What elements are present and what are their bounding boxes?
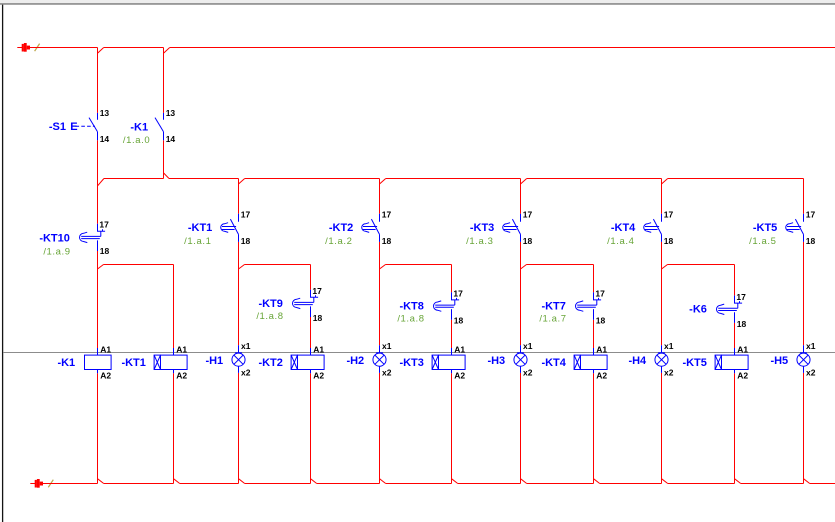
svg-text:A1: A1	[313, 344, 324, 354]
junction kink branch at col H	[521, 265, 527, 270]
wire col K	[734, 373, 736, 483]
contact -K6 top stub	[735, 296, 743, 304]
contact -KT1 delay symbol	[222, 226, 236, 228]
svg-text:x1: x1	[382, 341, 392, 351]
contact -K1 (seal-in)	[163, 113, 165, 120]
wire col A	[97, 373, 99, 483]
svg-text:x1: x1	[241, 341, 251, 351]
wire col D	[238, 179, 240, 214]
svg-text:-KT2: -KT2	[329, 222, 353, 234]
lamp -H4 body	[655, 353, 668, 366]
wire col L	[803, 179, 805, 214]
contact -KT9 blade	[294, 301, 314, 303]
svg-text:x2: x2	[664, 367, 674, 377]
coil -K1 top stub	[97, 348, 99, 355]
svg-text:18: 18	[382, 236, 392, 246]
contact -KT5 blade	[795, 219, 803, 234]
wire mid bus y178	[104, 178, 164, 180]
junction kink bottom bus at col H	[521, 479, 527, 484]
svg-text:18: 18	[806, 236, 816, 246]
svg-text:-KT4: -KT4	[611, 222, 636, 234]
svg-text:-K1: -K1	[130, 122, 148, 134]
svg-text:x1: x1	[523, 341, 533, 351]
contact -KT3 bottom stub	[520, 234, 522, 242]
svg-text:A2: A2	[313, 370, 324, 380]
svg-text:17: 17	[453, 289, 463, 299]
contact -KT3 delay symbol	[504, 226, 518, 228]
wire col J	[661, 373, 663, 484]
wire branch bus F-G	[386, 264, 452, 266]
junction kink bottom bus at col G	[452, 479, 458, 484]
contact -KT9 step	[313, 297, 315, 302]
contact -KT7 top stub	[594, 292, 602, 300]
svg-text:-KT1: -KT1	[121, 357, 145, 369]
svg-text:A2: A2	[596, 370, 607, 380]
svg-text:/1.a.5: /1.a.5	[749, 236, 776, 247]
svg-text:18: 18	[100, 246, 110, 256]
coil -KT4 body	[581, 355, 608, 369]
page top toolbar strip	[0, 0, 835, 3]
contact -KT8 blade	[435, 304, 455, 306]
coil -KT2 body	[298, 355, 325, 369]
wire col I	[593, 320, 595, 348]
pushbutton S1 contact	[97, 113, 99, 120]
junction kink top bus col B	[164, 48, 170, 54]
svg-text:x1: x1	[664, 341, 674, 351]
lamp -H3 top stub	[520, 345, 522, 353]
wire branch bus H-I	[527, 264, 594, 266]
contact -KT2 blade	[371, 219, 379, 234]
contact -K6 bottom stub	[734, 312, 736, 323]
contact -KT5 top stub	[803, 214, 805, 222]
junction kink mid bus at col A	[98, 179, 104, 186]
junction kink branch at col J	[662, 265, 668, 270]
wire col B	[163, 140, 165, 178]
contact -KT9 delay symbol	[293, 298, 301, 308]
wire col E	[310, 265, 312, 290]
svg-text:17: 17	[736, 292, 746, 302]
junction kink mid bus at col J	[662, 179, 668, 185]
wire col C	[173, 265, 175, 349]
contact -KT1 top stub	[238, 214, 240, 222]
wire col J	[661, 179, 663, 214]
svg-text:-S1: -S1	[49, 121, 66, 133]
contact -KT10 step	[100, 231, 102, 236]
coil -KT5 bottom stub	[734, 370, 736, 374]
coil -KT1 top stub	[173, 348, 175, 355]
contact -KT4 blade	[653, 219, 661, 234]
coil -K1 body	[85, 355, 112, 369]
wire col H	[520, 179, 522, 214]
contact -KT4 bottom stub	[661, 234, 663, 242]
contact -KT5 delay symbol	[787, 226, 801, 228]
svg-text:/1.a.2: /1.a.2	[325, 236, 352, 247]
coil -KT3 top stub	[451, 348, 453, 355]
junction kink branch at col A	[98, 265, 104, 270]
svg-text:A2: A2	[737, 370, 748, 380]
wire col H	[520, 242, 522, 345]
contact -KT3 blade	[512, 219, 520, 234]
svg-text:x2: x2	[382, 367, 392, 377]
svg-text:A2: A2	[176, 370, 187, 380]
contact -KT1 blade	[230, 219, 238, 234]
svg-text:-KT5: -KT5	[753, 222, 777, 234]
wire col K	[734, 323, 736, 348]
wire col I	[593, 373, 595, 483]
coil -KT3 body	[439, 355, 466, 369]
coil -KT3 timer marker box	[432, 355, 438, 369]
svg-text:-H5: -H5	[770, 355, 788, 367]
junction kink bottom bus at col K	[735, 479, 741, 484]
coil -KT3 bottom stub	[451, 370, 453, 374]
svg-text:-KT9: -KT9	[258, 298, 282, 310]
contact -KT8 top stub	[452, 292, 460, 300]
wire col D	[238, 373, 240, 484]
lamp -H5 bottom stub	[803, 366, 805, 373]
junction kink bottom bus at col J	[662, 479, 668, 484]
contact -KT7 blade	[577, 304, 597, 306]
svg-text:A1: A1	[596, 344, 607, 354]
svg-text:/1.a.9: /1.a.9	[43, 247, 70, 258]
coil -KT1 bottom stub	[173, 370, 175, 374]
contact -KT4 delay symbol	[645, 226, 659, 228]
contact -KT10 bottom stub	[97, 240, 99, 251]
contact -KT10 actuation tick	[102, 229, 104, 231]
wire bottom bus	[43, 483, 98, 485]
svg-text:/1.a.8: /1.a.8	[256, 311, 283, 322]
svg-text:18: 18	[454, 316, 464, 326]
svg-text:E: E	[70, 121, 77, 133]
coil -K1 bottom stub	[97, 370, 99, 374]
svg-text:-KT7: -KT7	[541, 301, 565, 313]
contact -KT2 bottom stub	[379, 234, 381, 242]
coil -KT4 bottom stub	[593, 370, 595, 374]
svg-text:13: 13	[166, 108, 176, 118]
svg-text:-KT10: -KT10	[39, 232, 70, 244]
wire col B	[163, 48, 165, 113]
svg-text:17: 17	[382, 210, 392, 220]
contact -KT7 step	[596, 300, 598, 305]
svg-text:-K6: -K6	[689, 304, 707, 316]
coil -KT4 top stub	[593, 348, 595, 355]
bottom bus phase tick	[48, 480, 53, 488]
contact -KT10 blade	[81, 235, 101, 237]
contact -KT8 bottom stub	[451, 309, 453, 320]
wire col G	[451, 320, 453, 348]
coil -KT2 top stub	[310, 348, 312, 355]
lamp -H3 bottom stub	[520, 366, 522, 373]
contact -KT1 bottom stub	[238, 234, 240, 242]
svg-text:-KT4: -KT4	[541, 357, 566, 369]
wire col E	[310, 317, 312, 348]
junction kink top bus col A	[98, 48, 104, 54]
lamp -H2 body	[373, 353, 386, 366]
junction kink mid bus at col B	[164, 173, 170, 179]
top bus source arrow	[17, 47, 22, 49]
wire col H	[520, 373, 522, 484]
wire col C	[173, 373, 175, 483]
junction kink bottom bus at col L	[804, 479, 810, 484]
svg-text:/1.a.8: /1.a.8	[397, 314, 424, 325]
wire col A	[97, 251, 99, 348]
contact -K6 step	[737, 303, 739, 308]
wire col F	[379, 373, 381, 484]
wire col F	[379, 179, 381, 214]
wire col A	[97, 140, 99, 224]
svg-text:/1.a.1: /1.a.1	[184, 236, 211, 247]
coil -KT2 bottom stub	[310, 370, 312, 374]
wire col I	[593, 265, 595, 293]
svg-text:A1: A1	[176, 344, 187, 354]
svg-text:-KT8: -KT8	[399, 301, 423, 313]
svg-text:A2: A2	[100, 370, 111, 380]
svg-text:-H3: -H3	[487, 355, 505, 367]
lamp -H5 body	[797, 353, 810, 366]
svg-text:17: 17	[99, 220, 109, 230]
junction kink mid bus at col F	[380, 179, 386, 185]
svg-text:17: 17	[806, 210, 816, 220]
svg-text:18: 18	[523, 236, 533, 246]
wire branch bus A-C	[104, 264, 174, 266]
wire col A	[97, 48, 99, 113]
coil -KT1 timer marker box	[154, 355, 160, 369]
svg-text:x2: x2	[523, 367, 533, 377]
coil -KT5 top stub	[734, 348, 736, 355]
contact -KT8 actuation tick	[456, 298, 458, 300]
junction kink mid bus at col H	[521, 179, 527, 185]
svg-text:-H1: -H1	[205, 355, 223, 367]
lamp -H1 top stub	[238, 345, 240, 353]
contact -KT10 delay symbol	[80, 232, 88, 242]
svg-text:A1: A1	[737, 344, 748, 354]
svg-text:A1: A1	[454, 344, 465, 354]
coil -KT2 timer marker box	[291, 355, 297, 369]
lamp -H1 body	[232, 353, 245, 366]
left window border	[2, 5, 4, 522]
lamp -H2 top stub	[379, 345, 381, 353]
contact -KT5 bottom stub	[803, 234, 805, 242]
contact -KT2 delay symbol	[363, 226, 377, 228]
top bus phase tick	[35, 44, 40, 52]
junction kink bottom bus at col I	[594, 479, 600, 484]
wire col J	[661, 242, 663, 345]
contact -KT7 bottom stub	[593, 309, 595, 320]
wire col F	[379, 242, 381, 345]
wire branch bus D-E	[245, 264, 311, 266]
wire col L	[803, 242, 805, 345]
svg-text:x2: x2	[806, 367, 816, 377]
junction kink branch at col F	[380, 265, 386, 270]
contact -KT10 top stub	[98, 224, 106, 232]
contact -KT9 bottom stub	[310, 306, 312, 317]
svg-text:-KT2: -KT2	[258, 357, 282, 369]
junction kink bottom bus at col C	[174, 479, 180, 484]
lamp -H4 bottom stub	[661, 366, 663, 373]
wire col G	[451, 373, 453, 483]
contact -K6 blade	[718, 307, 738, 309]
lamp -H3 body	[514, 353, 527, 366]
svg-text:A2: A2	[454, 370, 465, 380]
svg-text:13: 13	[100, 108, 110, 118]
coil -KT4 timer marker box	[574, 355, 580, 369]
coil -KT1 body	[161, 355, 188, 369]
junction kink mid bus at col D	[239, 179, 245, 185]
svg-text:18: 18	[596, 316, 606, 326]
junction kink bottom bus at col D	[239, 479, 245, 484]
wire branch bus J-K	[668, 264, 735, 266]
lamp -H1 bottom stub	[238, 366, 240, 373]
svg-text:-H2: -H2	[346, 355, 364, 367]
contact -KT2 top stub	[379, 214, 381, 222]
svg-text:18: 18	[737, 319, 747, 329]
junction kink bottom bus at col E	[311, 479, 317, 484]
contact -KT7 delay symbol	[575, 301, 583, 311]
contact -KT3 top stub	[520, 214, 522, 222]
contact -KT7 actuation tick	[598, 298, 600, 300]
svg-text:14: 14	[166, 134, 176, 144]
contact -KT9 top stub	[311, 290, 319, 298]
svg-text:-KT3: -KT3	[399, 357, 423, 369]
wire top bus	[30, 47, 98, 49]
gray separator line through coil row	[3, 352, 835, 354]
svg-text:17: 17	[523, 210, 533, 220]
coil -KT5 body	[722, 355, 749, 369]
lamp -H5 top stub	[803, 345, 805, 353]
contact -KT8 step	[454, 300, 456, 305]
svg-text:/1.a.0: /1.a.0	[123, 135, 150, 146]
svg-text:17: 17	[312, 286, 322, 296]
svg-text:-H4: -H4	[628, 355, 647, 367]
wire col K	[734, 265, 736, 296]
contact -K6 delay symbol	[716, 304, 724, 314]
bottom bus source arrow	[30, 483, 35, 485]
svg-text:14: 14	[100, 134, 110, 144]
svg-text:-KT5: -KT5	[682, 357, 706, 369]
contact -K6 actuation tick	[739, 301, 741, 303]
svg-text:17: 17	[664, 210, 674, 220]
svg-text:/1.a.4: /1.a.4	[607, 236, 634, 247]
svg-text:-KT1: -KT1	[188, 222, 212, 234]
lamp -H4 top stub	[661, 345, 663, 353]
wire col L	[803, 373, 805, 484]
svg-text:/1.a.3: /1.a.3	[466, 236, 493, 247]
svg-text:/1.a.7: /1.a.7	[539, 313, 566, 324]
lamp -H2 bottom stub	[379, 366, 381, 373]
pushbutton S1 actuator dashes	[76, 125, 96, 127]
svg-text:-K1: -K1	[57, 357, 75, 369]
junction kink branch at col D	[239, 265, 245, 270]
wire col G	[451, 265, 453, 293]
svg-text:17: 17	[241, 210, 251, 220]
junction kink bottom bus at col A	[98, 479, 104, 484]
svg-text:A1: A1	[100, 344, 111, 354]
junction kink bottom bus at col F	[380, 479, 386, 484]
svg-text:18: 18	[664, 236, 674, 246]
svg-text:17: 17	[595, 289, 605, 299]
coil -KT5 timer marker box	[715, 355, 721, 369]
wire col D	[238, 242, 240, 345]
svg-text:18: 18	[241, 236, 251, 246]
svg-text:x2: x2	[241, 367, 251, 377]
svg-text:x1: x1	[806, 341, 816, 351]
contact -KT9 actuation tick	[315, 295, 317, 297]
svg-text:18: 18	[313, 313, 323, 323]
wire col E	[310, 373, 312, 483]
contact -KT8 delay symbol	[434, 301, 442, 311]
contact -KT4 top stub	[661, 214, 663, 222]
svg-text:-KT3: -KT3	[470, 222, 494, 234]
